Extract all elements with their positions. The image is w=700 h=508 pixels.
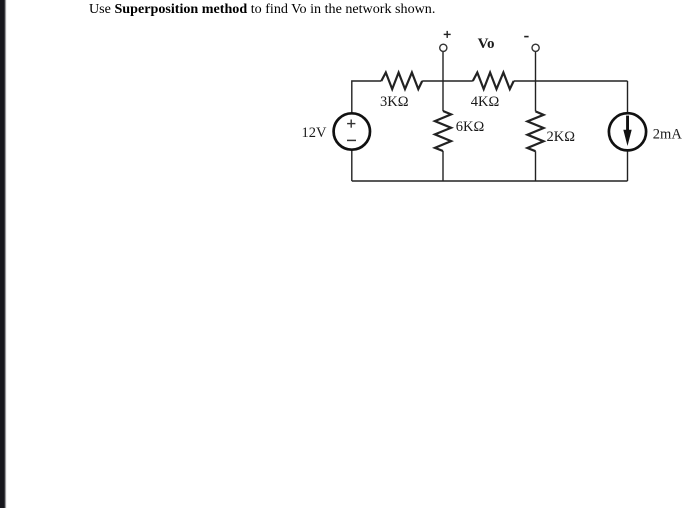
voltage source V1 plus sign xyxy=(347,120,355,128)
svg-text:2KΩ: 2KΩ xyxy=(547,129,576,145)
wire: left branch lower xyxy=(351,150,353,181)
problem statement text xyxy=(89,1,435,18)
svg-text:12V: 12V xyxy=(302,125,328,141)
wire: top rail right segment xyxy=(514,80,628,82)
wire: 2K branch upper xyxy=(535,81,537,111)
left page-scan black bar (decorative) xyxy=(0,0,7,508)
current source I1 2mA (circle) xyxy=(609,113,646,150)
svg-text:4KΩ: 4KΩ xyxy=(471,94,500,110)
resistor R4 2KΩ (vertical zigzag) xyxy=(527,111,543,151)
svg-text:Vo: Vo xyxy=(478,36,495,52)
node B polarity - mark xyxy=(524,36,528,38)
wire: 2K branch lower xyxy=(535,151,537,181)
resistor R1 3KΩ (horizontal zigzag) xyxy=(381,73,422,90)
wire: node A lead from + terminal xyxy=(442,52,444,81)
wire: top rail between R1 and R2 xyxy=(422,80,473,82)
wire: right branch lower xyxy=(627,150,629,181)
wire: top rail left segment xyxy=(352,81,382,113)
svg-text:2mA: 2mA xyxy=(653,126,683,142)
voltage source V1 12V (circle) xyxy=(334,113,370,149)
wire: bottom rail xyxy=(352,180,628,182)
resistor R3 6KΩ (vertical zigzag) xyxy=(435,111,451,151)
node A + terminal (open circle) xyxy=(440,44,447,51)
node A polarity + mark xyxy=(444,31,451,38)
voltage source V1 minus sign xyxy=(347,139,356,141)
wire: right branch upper xyxy=(627,81,629,113)
node B - terminal (open circle) xyxy=(532,44,539,51)
svg-text:3KΩ: 3KΩ xyxy=(380,94,409,110)
wire: node B lead from - terminal xyxy=(535,52,537,81)
wire: 6K branch upper xyxy=(442,81,444,111)
current source I1 arrow (downward) xyxy=(623,116,631,146)
svg-text:6KΩ: 6KΩ xyxy=(456,119,485,135)
resistor R2 4KΩ (horizontal zigzag) xyxy=(473,73,514,90)
wire: 6K branch lower xyxy=(442,151,444,181)
